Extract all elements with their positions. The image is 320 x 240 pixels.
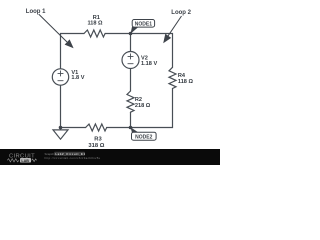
watermark bar: [0, 149, 220, 165]
svg-text:R2: R2: [135, 97, 142, 103]
junction dot NODE2: [129, 126, 133, 130]
svg-text:318 Ω: 318 Ω: [88, 143, 104, 149]
label V2 value: [141, 55, 157, 67]
svg-text:R3: R3: [94, 136, 102, 142]
resistor R1 (zigzag body): [84, 30, 105, 37]
svg-text:http://circuitlab.com/c6rz3acb: http://circuitlab.com/c6rz3acb0nv5u: [45, 156, 101, 160]
svg-text:Loop 1: Loop 1: [26, 9, 46, 15]
ground symbol: [53, 128, 68, 140]
junction dot at ground: [59, 126, 63, 130]
wire: ground junction right to R3 left lead: [61, 127, 86, 129]
svg-text:1.8 V: 1.8 V: [71, 75, 84, 81]
svg-text:LAB: LAB: [21, 159, 29, 163]
wire: V2 bottom lead to R2 top: [130, 69, 132, 92]
wire: R2 bottom lead to NODE2 junction: [130, 112, 132, 127]
CircuitLab logo: [7, 153, 36, 162]
annotation arrow Loop 1: [39, 14, 74, 48]
svg-text:NODE1: NODE1: [135, 21, 152, 27]
node NODE1 flag: [131, 20, 155, 34]
label R3 value: [88, 136, 104, 149]
wire: V1 bottom lead down to ground junction: [60, 85, 62, 127]
label R4 value: [178, 73, 194, 85]
svg-text:NODE2: NODE2: [135, 134, 152, 140]
voltage source V1 (circle): [52, 69, 68, 85]
svg-text:Loop 2: Loop 2: [171, 10, 191, 16]
svg-text:118 Ω: 118 Ω: [87, 21, 103, 27]
wire: NODE1 junction down to V2 top: [130, 34, 132, 52]
svg-text:R4: R4: [178, 73, 186, 79]
svg-text:218 Ω: 218 Ω: [135, 103, 151, 109]
wire: R4 bottom lead down to bottom-right corner and left to NODE2: [131, 89, 173, 128]
snapshot caption: [45, 152, 101, 160]
annotation arrow Loop 2: [163, 16, 181, 43]
node NODE2 flag: [131, 127, 157, 140]
voltage source V2 (circle): [122, 52, 139, 69]
resistor R4 (vertical zigzag body): [169, 67, 176, 88]
wire: R1 right lead through NODE1 to top-right corner and down to R4: [105, 34, 172, 68]
svg-text:118 Ω: 118 Ω: [178, 79, 194, 85]
junction dot NODE1: [129, 32, 133, 36]
label R2 value: [135, 97, 151, 109]
resistor R3 (zigzag body): [86, 124, 107, 131]
label V1 value: [71, 70, 84, 81]
wire top-left corner: V1 top lead to R1 left lead: [61, 34, 85, 69]
resistor R2 (vertical zigzag body): [127, 91, 134, 112]
label R1 value: [87, 15, 103, 27]
wire: R3 right lead to NODE2 junction: [107, 127, 131, 129]
svg-text:1.18 V: 1.18 V: [141, 61, 157, 67]
